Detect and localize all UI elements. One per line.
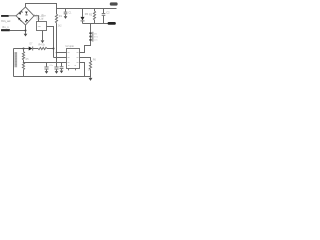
wire box right pin to vertical (47, 27, 54, 58)
ground GND1 (24, 34, 28, 37)
resistor R4 horizontal (38, 47, 47, 49)
svg-text:47u: 47u (49, 65, 53, 67)
capacitor C4 (56, 63, 58, 67)
zener D6 (89, 32, 91, 34)
svg-text:2k2: 2k2 (58, 25, 62, 27)
U2 right pin mid to resistor (80, 58, 91, 61)
junction bridge bottom / neutral (25, 30, 27, 32)
vertical grey text block (15, 52, 18, 67)
svg-text:R1: R1 (59, 15, 63, 18)
rail mid y23 (83, 23, 113, 25)
ground GND3 (64, 16, 68, 19)
bridge diode D2 top-right (25, 12, 28, 15)
port Vout blob (110, 2, 118, 5)
pin marks inside U2 (68, 53, 79, 66)
U2 right pin low (80, 63, 85, 77)
ground GND6 (45, 71, 49, 74)
IC U2 box (67, 49, 80, 69)
ground GND5 (89, 78, 93, 81)
capacitor C3 (46, 63, 48, 67)
junction node (53, 48, 55, 50)
svg-text:R4 1k: R4 1k (39, 43, 46, 46)
bridge rectifier BR1 diamond (16, 7, 34, 25)
chain wire y48.5 (14, 48, 29, 50)
left loop wire (13, 49, 15, 77)
ground GND7 (55, 71, 59, 74)
wire bridge top corner to top rail (26, 4, 57, 15)
resistor R6 (89, 61, 91, 70)
wire zener to opto pin (80, 41, 91, 53)
rail bottom y76.5 (14, 76, 91, 78)
svg-text:R6: R6 (93, 58, 97, 61)
resistor R1 vertical (55, 14, 57, 24)
wire R1 bottom bus down (56, 24, 58, 63)
svg-text:D7: D7 (30, 44, 34, 46)
resistor R2 vertical (94, 9, 96, 12)
resistor chain R5a (23, 49, 25, 52)
junction chain (23, 48, 25, 50)
wire diode to resistor (33, 48, 38, 50)
ground GND2 (41, 40, 45, 43)
U2 left pin stubs (57, 52, 67, 54)
rail top right y8 (57, 8, 117, 10)
port Vin_ac bar (1, 15, 9, 17)
capacitor C2 (103, 9, 105, 14)
wire resistor to node (47, 48, 54, 50)
resistor chain R5b (23, 60, 25, 63)
wire box bottom pin (42, 31, 44, 41)
capacitor C5 bypass (61, 63, 63, 67)
svg-text:5V1: 5V1 (94, 36, 99, 38)
svg-text:D6: D6 (94, 33, 98, 35)
U2 bottom stubs (68, 69, 70, 71)
port neutral bar (1, 29, 10, 31)
bridge diode D1 top-left (19, 12, 22, 15)
svg-text:um: um (38, 26, 41, 28)
svg-text:C1: C1 (69, 13, 73, 15)
junction bus/pin dots (56, 52, 58, 54)
diode D5 (82, 9, 84, 17)
box U1 (top controller) (37, 22, 47, 31)
svg-text:1W_id: 1W_id (36, 17, 44, 20)
wire right column down (90, 24, 92, 42)
svg-text:C2: C2 (106, 11, 110, 14)
svg-text:zen: zen (94, 40, 98, 42)
bridge diode D4 bottom-right (26, 19, 29, 22)
bridge diode D3 bottom-left (18, 18, 21, 21)
rail y62 (24, 62, 57, 64)
capacitor C1 (65, 9, 67, 12)
wire bridge bottom corner down (25, 25, 27, 34)
diode D7 horizontal (29, 47, 33, 51)
svg-text:R2: R2 (89, 13, 93, 16)
wire bridge right corner to box top (34, 16, 39, 22)
port RTN blob (108, 22, 116, 25)
wire neutral to bridge bottom node (10, 30, 26, 32)
svg-text:U2 opto: U2 opto (66, 45, 75, 48)
svg-text:Vin_n: Vin_n (2, 25, 9, 29)
svg-text:Vin_ac: Vin_ac (1, 19, 11, 23)
wire Vin_ac to bridge left corner (9, 15, 17, 17)
ground GND4 (60, 71, 64, 74)
junction chain/rail (23, 62, 25, 64)
svg-text:R5: R5 (26, 59, 30, 61)
